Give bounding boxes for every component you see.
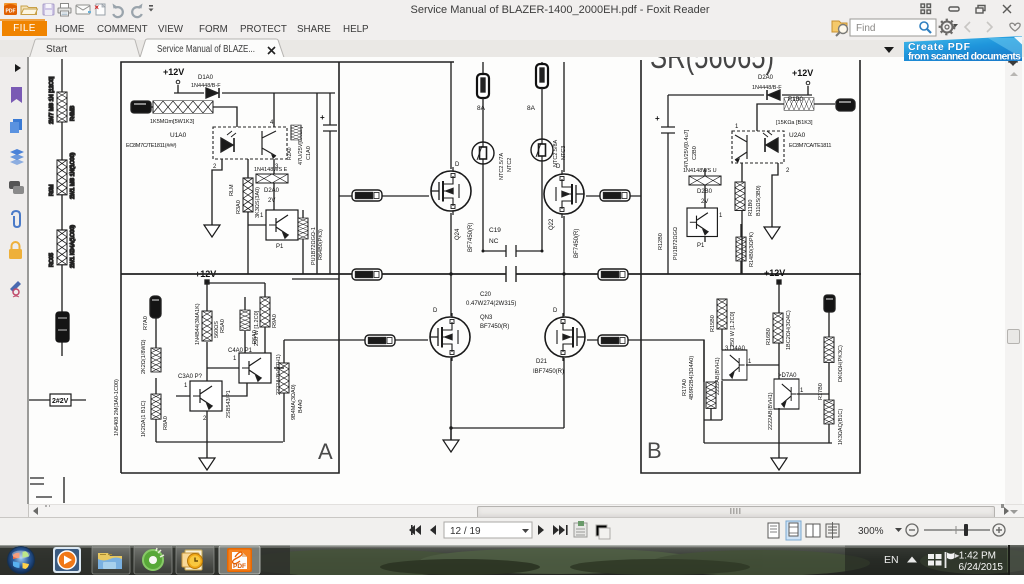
resistor R7A0 [141,316,161,374]
wires B lower [704,284,829,443]
svg-text:C20: C20 [480,292,492,298]
svg-text:Service Manual of BLAZE...: Service Manual of BLAZE... [157,44,255,55]
resistor R2A0 small [287,125,301,160]
svg-text:12 / 19: 12 / 19 [450,526,481,537]
svg-text:B: B [647,438,662,463]
svg-text:8A: 8A [477,105,486,112]
wire page bottom left mark [30,477,64,503]
svg-text:2#2V: 2#2V [52,398,69,405]
svg-text:1N4148WS U: 1N4148WS U [683,168,717,174]
svg-text:+12V: +12V [163,67,184,77]
connector CN2 box 2#2V [50,394,71,406]
svg-text:0.47W274(2W315): 0.47W274(2W315) [466,301,516,307]
svg-text:DK0ΩH(PK3C): DK0ΩH(PK3C) [838,345,844,382]
resistor R13B0 [682,356,716,409]
connector CN1 barrel [56,312,69,342]
label R02 value [49,152,76,199]
ground center [450,428,452,440]
wire +12V to diode rail [174,85,335,93]
svg-text:1N4148WS E: 1N4148WS E [254,167,288,173]
connector pill J1A [131,101,151,113]
svg-text:+12V: +12V [792,68,813,78]
svg-text:2W1 MS 1N(1C00): 2W1 MS 1N(1C00) [70,152,76,199]
label R01 value 2W7 MS 1N(1200) [49,76,76,124]
svg-text:C19: C19 [489,227,501,234]
mosfet Q21 [545,308,585,361]
svg-text:R0M: R0M [49,184,55,196]
svg-text:C4A0 P1: C4A0 P1 [228,348,253,354]
resistor R5A0 [195,303,226,345]
svg-text:R64B0(PK3): R64B0(PK3) [318,229,324,260]
connector pill J2A vertical [150,296,161,318]
node +12V A mid [195,269,216,284]
svg-text:R2A0: R2A0 [287,147,293,160]
thermistor NTC3 [531,139,567,167]
svg-text:Start: Start [46,44,67,55]
capacitor C1B0 polar [655,95,698,274]
svg-text:[15KΩa [B1K3]: [15KΩa [B1K3] [776,120,813,126]
wire NTC3 to C19 [541,161,543,251]
svg-text:C3A0 P?: C3A0 P? [178,374,203,380]
wire opto pin4 up [273,93,275,127]
ground A lower [206,442,208,458]
svg-text:1N4448/B-F: 1N4448/B-F [191,83,221,89]
label Q21 part [533,359,564,375]
svg-text:2K2Ω(1/8WΩ): 2K2Ω(1/8WΩ) [141,339,147,374]
transistor Q2A box [228,348,282,395]
wire J1A to R1A0 [151,106,153,108]
inner box B bottom [704,442,832,444]
diode D1B0 [752,75,782,100]
svg-text:8A: 8A [527,105,536,112]
transistor Q1B box [715,346,752,395]
svg-text:A: A [318,439,333,464]
svg-text:R1B0: R1B0 [788,97,804,103]
wire R4A0 [248,210,303,274]
wire opto emitter down [273,159,275,210]
svg-text:Q22: Q22 [549,218,555,230]
resistor R01 [57,92,67,122]
svg-text:R14B0(3ΩPK): R14B0(3ΩPK) [749,232,755,267]
wire J2A column [155,318,157,442]
svg-text:9B4MA(3ΩA0): 9B4MA(3ΩA0) [291,384,297,420]
wire left supply rail [61,59,63,356]
svg-text:PU1B72ΩGΩ: PU1B72ΩGΩ [673,227,679,260]
svg-text:EC8M7CA/TE1811: EC8M7CA/TE1811 [789,143,831,149]
svg-text:from scanned documents: from scanned documents [908,51,1021,63]
svg-text:3 D4A0: 3 D4A0 [725,346,746,352]
svg-text:R11B0: R11B0 [748,200,754,216]
label U2B0 [789,132,831,149]
svg-text:R3A0: R3A0 [236,200,242,214]
svg-text:BF7450(R): BF7450(R) [480,324,509,330]
capacitor C19 [483,227,542,257]
resistor R11B0 [735,182,762,216]
svg-text:U1A0: U1A0 [170,132,187,139]
svg-text:R15B0: R15B0 [710,315,716,332]
svg-text:R17A0: R17A0 [682,379,688,396]
svg-text:2222AB(BVH1): 2222AB(BVH1) [768,392,774,430]
resistor R16B0 [766,310,792,350]
svg-text:Find: Find [856,23,875,34]
window chrome [0,0,1024,20]
svg-text:D2A0: D2A0 [264,188,280,194]
wire opto pin2 to ground [212,159,222,225]
svg-text:6/24/2015: 6/24/2015 [959,562,1004,573]
mosfet Q23 [430,308,470,361]
resistor R3A0 [236,178,261,218]
wire gate A out [274,367,284,369]
svg-text:1:42 PM: 1:42 PM [959,551,996,562]
svg-text:+12V: +12V [764,268,785,278]
box A outline [121,62,454,473]
capacitor C20 [466,266,516,307]
wire gate Q21 [587,339,641,341]
bus second line A [292,278,339,280]
svg-text:R17B0: R17B0 [818,383,824,400]
label R1B0 [776,97,813,126]
opto U1A0 dashed box [213,120,287,170]
wire F2 to NTC3 [541,88,543,139]
transistor U2A0 box [260,210,298,250]
svg-text:2SB543/P1: 2SB543/P1 [226,390,232,418]
svg-text:R5A0: R5A0 [220,319,226,333]
resistor R1B0 [784,98,814,110]
connector GRC-4 [600,190,630,201]
wire drop to bus x317 [316,93,318,274]
wires A lower cluster [176,283,339,442]
svg-text:2W1 K04A(1C00): 2W1 K04A(1C00) [70,225,76,268]
diode D2A0 box [256,174,288,204]
connector RB-B bus [352,269,382,280]
svg-text:QN3: QN3 [480,315,493,321]
resistor R1A0 [153,101,213,113]
ground A upper [204,225,220,237]
svg-text:1K5MΩm[5W1K3]: 1K5MΩm[5W1K3] [150,119,195,125]
wire gate Q24 [339,195,429,197]
resistor R03 [57,230,67,265]
svg-text:NTC3: NTC3 [561,146,567,160]
svg-text:1N4448/B-F: 1N4448/B-F [752,85,782,91]
node +12V B top [792,68,813,85]
transistor U3B0 box [658,208,723,260]
wire R1A0 to opto [213,107,237,127]
svg-text:+: + [320,113,325,122]
resistor R4A0 [298,218,324,265]
connector GNB-1 bus [598,269,628,280]
resistor R14B0 [736,232,755,267]
svg-text:300%: 300% [858,526,884,537]
bus wire OUT [121,273,861,275]
ground B upper [764,227,780,239]
wires B mid [705,163,742,274]
svg-text:P1: P1 [697,243,705,249]
resistor R10A0 [279,363,304,420]
svg-text:R16B0: R16B0 [766,328,772,345]
connector RB1-4 [352,190,382,201]
connector GRC-3 [598,335,628,346]
inner box A bottom [156,441,283,443]
fuse F1 8A [482,62,484,74]
svg-text:1BC2ΩH(3Ω4C): 1BC2ΩH(3Ω4C) [786,310,792,350]
svg-text:NTC2.5/7A: NTC2.5/7A [499,152,505,180]
connector pill J1B [836,99,855,111]
connector pill J2B vertical [824,295,835,312]
junction dots [449,250,565,430]
label R03 value [49,225,76,268]
svg-text:1N4B44(3MA1K): 1N4B44(3MA1K) [195,303,201,345]
opto U2B0 dashed box [732,124,790,174]
ground B lower [778,443,780,458]
wire rail Q24 [450,62,452,440]
resistor R8A0 [141,394,169,437]
svg-text:250 W [1.2C0]: 250 W [1.2C0] [254,310,260,346]
mosfet Q24 [431,162,474,252]
resistor R17B0 [818,337,844,400]
svg-text:R7A0: R7A0 [143,316,149,330]
wire gate Q23 [339,339,428,341]
svg-text:BF7450(R): BF7450(R) [468,223,474,252]
mosfet Q22 [544,164,584,258]
wire opto B pin2 to ground [772,163,778,227]
thermistor NTC2 [472,142,513,180]
wire F1 to NTC2 [482,98,484,142]
svg-text:1N5408 2M(3A0-1C00): 1N5408 2M(3A0-1C00) [114,379,120,436]
svg-text:NTC2.5/8A: NTC2.5/8A [553,139,559,167]
svg-text:PDF: PDF [233,563,246,570]
wire R3A0 [247,159,249,274]
fuse F2 8A [541,62,543,64]
svg-text:EN: EN [884,554,899,566]
transistor Q1A box [178,374,232,422]
svg-text:R9A0: R9A0 [272,314,278,328]
svg-text:D: D [553,308,558,314]
label Q23 part [480,315,509,330]
svg-text:D: D [433,308,438,314]
svg-text:1K3ΩAQ(B1C): 1K3ΩAQ(B1C) [838,409,844,445]
box B outline [641,60,860,473]
capacitor C1A0 polar [298,93,337,274]
wire gate B in [641,340,704,443]
svg-text:R8A0: R8A0 [163,416,169,430]
resistor R6A0 [240,310,258,344]
svg-text:R4MB: R4MB [70,105,76,121]
svg-text:C2B0: C2B0 [692,146,698,160]
svg-text:+: + [655,114,660,123]
svg-text:NC: NC [489,238,499,245]
svg-text:Q24: Q24 [455,228,461,240]
node +12V B mid [764,268,785,284]
wire gate Q22 [586,195,641,197]
diode D1A0 [191,75,221,98]
svg-text:R12B0: R12B0 [658,233,664,250]
svg-text:PU1B72ΩGΩ-1: PU1B72ΩGΩ-1 [311,227,317,265]
svg-text:D: D [455,162,460,168]
wire +12V B rail [668,86,812,95]
svg-text:BF7450(R): BF7450(R) [574,229,580,258]
svg-text:RLM: RLM [229,184,235,196]
connector RB1-3 [365,335,395,346]
wire to CN2 [29,399,86,401]
svg-text:U2A0: U2A0 [789,132,806,139]
diode D2B0 box [689,176,721,205]
resistor R18B0 [824,400,844,445]
transistor Q2B box [768,373,804,430]
svg-text:PDF: PDF [6,9,16,15]
wire NTC2 to C19 [482,164,484,251]
svg-text:NTC2: NTC2 [507,158,513,172]
svg-text:2V: 2V [268,198,275,204]
svg-text:P1: P1 [276,244,284,250]
svg-text:4B9R2B4(3Ω4A0): 4B9R2B4(3Ω4A0) [689,356,695,400]
svg-text:IBF7450(R): IBF7450(R) [533,369,564,375]
svg-text:250 W [1.2C0]: 250 W [1.2C0] [730,311,736,347]
svg-text:EC8M7C/TE1811(###): EC8M7C/TE1811(###) [126,143,177,149]
svg-text:SR(56065): SR(56065) [650,57,774,76]
resistor R9A0 [254,297,278,346]
svg-text:B4A0: B4A0 [298,400,304,413]
resistor R02 [57,160,67,195]
svg-text:C1A0: C1A0 [306,146,312,160]
svg-text:D2A0: D2A0 [758,75,774,81]
resistor R15B0 [710,299,736,347]
svg-text:47U/25V[0.4u7]: 47U/25V[0.4u7] [684,129,690,168]
svg-text:>D7A0: >D7A0 [778,373,797,379]
node +12V A top [163,67,184,84]
svg-text:2W7 MS 1N [12C0]: 2W7 MS 1N [12C0] [49,76,55,124]
wire R1B0 joins [757,104,835,131]
wire rail Q22 [451,62,564,428]
svg-text:RC05: RC05 [49,253,55,267]
svg-text:1K2ΩA(1 B1C): 1K2ΩA(1 B1C) [141,400,147,437]
svg-text:D1A0: D1A0 [198,75,214,81]
svg-text:B11ΩS(3B0): B11ΩS(3B0) [756,185,762,216]
svg-text:D21: D21 [536,359,548,365]
